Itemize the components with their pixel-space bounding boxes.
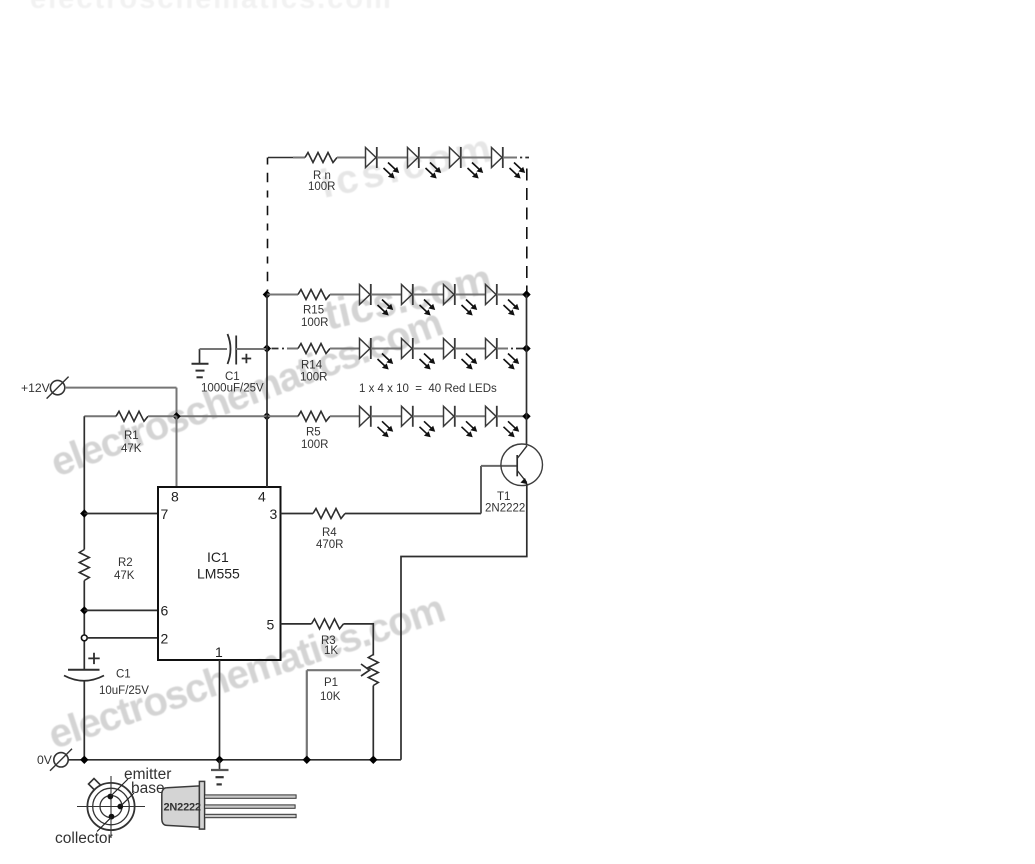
wire base riser: [480, 466, 482, 514]
node row4 left: [263, 412, 271, 420]
LED D4: [492, 147, 526, 179]
wire R1 left: [84, 415, 116, 417]
wire: [497, 415, 527, 417]
svg-text:0V: 0V: [37, 753, 53, 767]
wire row1 left corner: [268, 157, 293, 159]
lead 3: [205, 814, 297, 817]
svg-text:T1: T1: [497, 491, 510, 503]
svg-text:8: 8: [171, 489, 179, 505]
LED D10: [402, 338, 436, 370]
svg-text:R5: R5: [306, 427, 321, 439]
svg-text:R14: R14: [301, 360, 323, 372]
label lines: [111, 779, 128, 796]
svg-text:5: 5: [267, 617, 275, 633]
LED D9: [360, 338, 394, 370]
node bus-wiper: [303, 756, 311, 764]
wire: [419, 157, 450, 159]
resistor R1: [116, 411, 148, 421]
node pin6: [80, 606, 88, 614]
can body: [162, 786, 200, 827]
wire pin2: [87, 637, 158, 639]
wire: [413, 294, 444, 296]
svg-text:2N2222: 2N2222: [164, 801, 201, 813]
wire row1 right dash-dot: [503, 157, 517, 159]
wire: [330, 415, 360, 417]
wire row1 segment to resistor: [293, 157, 305, 159]
op box IC1: [158, 487, 281, 660]
resistor R15: [298, 290, 330, 300]
LED D2: [408, 147, 442, 179]
svg-text:LM555: LM555: [197, 566, 240, 582]
wire base: [481, 465, 517, 467]
svg-text:electroschematics.com: electroschematics.com: [43, 587, 449, 758]
LED D11: [444, 338, 478, 370]
wire: [267, 415, 298, 417]
wire: [330, 294, 360, 296]
svg-text:4: 4: [258, 489, 266, 505]
node row2 left: [263, 290, 271, 298]
wire pin3: [281, 513, 314, 515]
wire pin1: [219, 660, 221, 760]
resistor R4: [313, 509, 345, 519]
node pin2 ring: [81, 635, 87, 641]
svg-text:100R: 100R: [301, 317, 329, 329]
svg-text:1K: 1K: [324, 645, 338, 657]
terminal 0V: [50, 749, 72, 771]
node pin7: [80, 509, 88, 517]
wire pin6: [84, 609, 158, 611]
svg-text:1: 1: [215, 644, 223, 660]
wire +12V down to R1 node: [176, 388, 178, 417]
ground main: [219, 760, 221, 770]
svg-text:base: base: [131, 780, 165, 797]
wire R1 right: [148, 415, 177, 417]
wire rail bottom: [83, 681, 85, 760]
wire R3 to P1: [344, 624, 374, 656]
capacitor C1 1000uF plates: [228, 334, 231, 364]
dashed riser left: [267, 158, 269, 292]
svg-text:3: 3: [270, 506, 278, 522]
LED D12: [486, 338, 520, 370]
svg-text:C1: C1: [116, 669, 131, 681]
svg-text:100R: 100R: [308, 181, 336, 193]
wire R4 to base riser: [345, 513, 481, 515]
LED D15: [444, 406, 478, 438]
LED D1: [366, 147, 400, 179]
wire capacitor to node: [236, 348, 266, 350]
wire: [83, 581, 85, 670]
wire: [371, 415, 402, 417]
wire + dash-dot right: [497, 348, 508, 350]
wire: [455, 294, 486, 296]
svg-text:2: 2: [161, 631, 169, 647]
ground C1: [199, 349, 201, 364]
wire: [267, 294, 298, 296]
lead 2: [205, 805, 296, 808]
wire: [497, 294, 527, 296]
wire left bus solid: [266, 295, 268, 488]
svg-text:1 x 4 x 10 = 40 Red LEDs: 1 x 4 x 10 = 40 Red LEDs: [359, 383, 497, 395]
svg-text:10K: 10K: [320, 691, 341, 703]
LED D7: [444, 284, 478, 316]
svg-text:2N2222: 2N2222: [485, 503, 525, 515]
can flange: [199, 781, 204, 829]
node row3 left / C1 junction: [263, 344, 271, 352]
node row3 right: [522, 344, 530, 352]
wire wiper riser: [306, 670, 308, 760]
svg-text:470R: 470R: [316, 539, 344, 551]
svg-text:R2: R2: [118, 557, 133, 569]
potentiometer P1: [368, 655, 378, 686]
wire +12V horizontal: [65, 387, 177, 389]
wire: [413, 415, 444, 417]
svg-text:C1: C1: [225, 371, 240, 383]
LED D14: [402, 406, 436, 438]
svg-text:6: 6: [161, 603, 169, 619]
capacitor C1 10uF: [88, 653, 99, 664]
svg-text:47K: 47K: [114, 570, 135, 582]
LED D3: [450, 147, 484, 179]
resistor R5: [298, 411, 330, 421]
wire: [330, 348, 360, 350]
svg-text:collector: collector: [55, 830, 113, 847]
wire ground bus: [68, 759, 401, 761]
wire: [371, 294, 402, 296]
svg-text:+12V: +12V: [21, 381, 51, 395]
wire: [377, 157, 408, 159]
wire pin7: [84, 513, 158, 515]
wire to capacitor: [200, 348, 228, 350]
node bus-P1: [369, 756, 377, 764]
svg-text:R15: R15: [303, 305, 324, 317]
dash-dot left: [272, 348, 285, 350]
svg-text:47K: 47K: [121, 443, 142, 455]
node row2 right: [522, 290, 530, 298]
svg-text:P1: P1: [324, 677, 338, 689]
lead 1: [205, 795, 297, 798]
wiper arrow: [307, 669, 361, 671]
LED D8: [486, 284, 520, 316]
transistor T1: [501, 444, 543, 486]
svg-text:1000uF/25V: 1000uF/25V: [201, 383, 264, 395]
node R1 right: [172, 412, 180, 420]
resistor R3: [312, 619, 344, 629]
svg-text:100R: 100R: [300, 372, 328, 384]
wire: [413, 348, 444, 350]
svg-text:100R: 100R: [301, 439, 329, 451]
LED D5: [360, 284, 394, 316]
dashed riser right: [526, 169, 528, 293]
wire right bus solid: [526, 295, 528, 446]
wire: [371, 348, 402, 350]
node row4 right: [522, 412, 530, 420]
wire: [455, 348, 486, 350]
lead emitter: [107, 794, 113, 800]
wire R1 node to row4: [177, 415, 267, 417]
wire left rail top: [83, 416, 85, 549]
wire pin8 riser: [176, 416, 178, 487]
node bus-rail: [80, 756, 88, 764]
lead collector: [109, 814, 115, 820]
wire emitter down: [401, 484, 527, 760]
wire P1 bottom: [372, 686, 374, 760]
svg-text:7: 7: [161, 506, 169, 522]
wire row1 resistor to LEDs: [337, 157, 366, 159]
svg-text:IC1: IC1: [207, 549, 229, 565]
svg-text:electroschematics.com: electroschematics.com: [30, 0, 393, 15]
svg-text:R1: R1: [124, 430, 139, 442]
wire pin5: [281, 623, 312, 625]
svg-text:10uF/25V: 10uF/25V: [99, 685, 149, 697]
tab: [89, 779, 103, 793]
resistor R14: [298, 344, 330, 354]
wire: [455, 415, 486, 417]
LED D16: [486, 406, 520, 438]
resistor R2: [79, 550, 89, 581]
LED D13: [360, 406, 394, 438]
resistor Rn: [305, 153, 337, 163]
node bus-pin1: [215, 756, 223, 764]
LED D6: [402, 284, 436, 316]
wire: [461, 157, 492, 159]
wire pin4 riser: [266, 416, 268, 487]
svg-text:R4: R4: [322, 527, 337, 539]
terminal +12V: [47, 377, 69, 399]
lead base: [117, 804, 123, 810]
